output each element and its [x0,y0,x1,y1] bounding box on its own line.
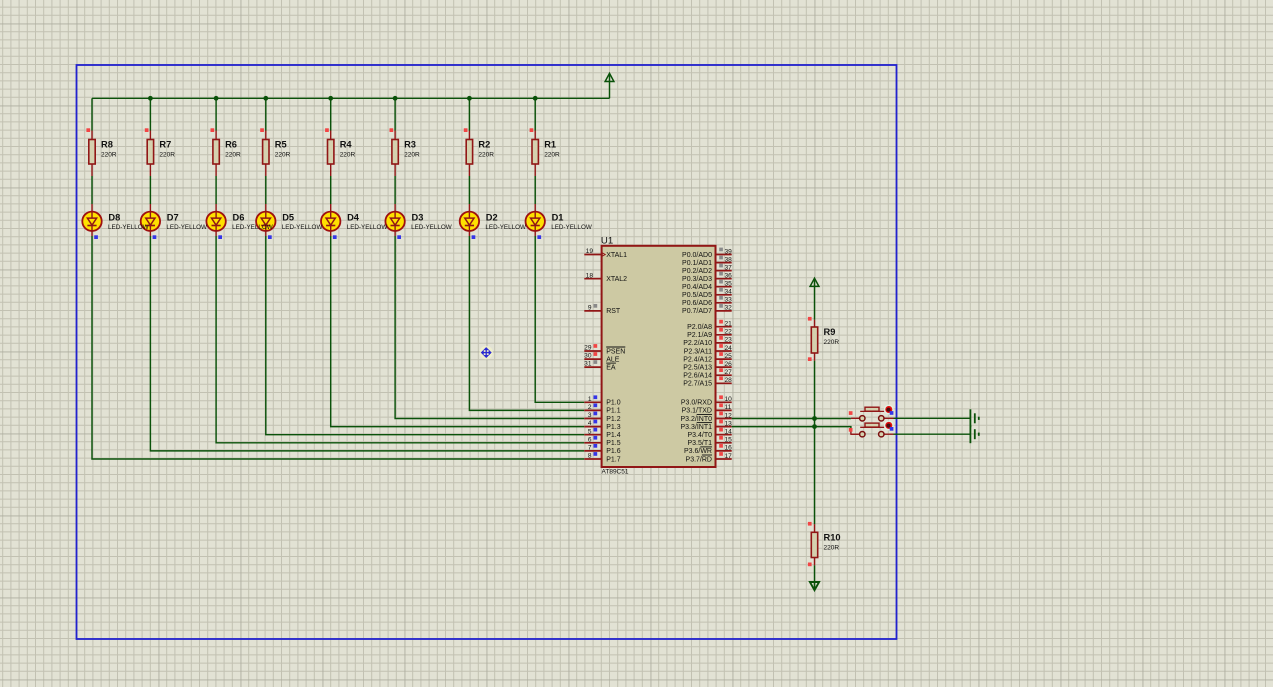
svg-text:10: 10 [725,396,733,403]
svg-text:R4: R4 [340,140,353,150]
svg-text:PSEN: PSEN [606,348,625,355]
svg-text:XTAL1: XTAL1 [606,252,627,259]
svg-text:220R: 220R [478,152,494,159]
svg-text:R6: R6 [225,140,237,150]
svg-text:4: 4 [588,420,592,427]
svg-text:D1: D1 [552,213,564,223]
svg-text:P1.0: P1.0 [606,400,621,407]
svg-text:5: 5 [588,428,592,435]
svg-text:P3.2/INT0: P3.2/INT0 [680,416,712,423]
svg-text:EA: EA [606,364,616,371]
svg-text:LED-YELLOW: LED-YELLOW [411,224,452,231]
svg-text:26: 26 [725,361,733,368]
svg-text:P0.5/AD5: P0.5/AD5 [682,292,712,299]
svg-text:R8: R8 [101,140,113,150]
svg-text:28: 28 [725,377,733,384]
svg-text:220R: 220R [159,152,175,159]
svg-text:P2.1/A9: P2.1/A9 [687,332,712,339]
svg-text:P2.6/A14: P2.6/A14 [683,373,712,380]
svg-text:35: 35 [725,281,733,288]
svg-text:P0.3/AD3: P0.3/AD3 [682,276,712,283]
svg-text:36: 36 [725,273,733,280]
svg-text:LED-YELLOW: LED-YELLOW [485,224,526,231]
svg-text:ALE: ALE [606,356,620,363]
svg-text:P3.7/RD: P3.7/RD [686,456,712,463]
svg-text:29: 29 [584,345,592,352]
svg-text:D8: D8 [108,213,120,223]
svg-text:P3.1/TXD: P3.1/TXD [682,408,712,415]
svg-text:34: 34 [725,289,733,296]
svg-text:P2.3/A11: P2.3/A11 [684,348,712,355]
svg-text:P2.7/A15: P2.7/A15 [683,381,712,388]
svg-text:2: 2 [588,404,592,411]
svg-text:19: 19 [586,248,594,255]
svg-text:37: 37 [725,264,733,271]
svg-text:21: 21 [725,321,733,328]
svg-text:P3.6/WR: P3.6/WR [684,448,712,455]
svg-text:P0.7/AD7: P0.7/AD7 [682,308,712,315]
svg-text:P3.0/RXD: P3.0/RXD [681,400,712,407]
svg-text:D4: D4 [347,213,360,223]
svg-text:R1: R1 [544,140,556,150]
svg-text:25: 25 [725,353,733,360]
svg-text:R9: R9 [824,327,836,337]
svg-text:D5: D5 [282,213,294,223]
svg-text:D7: D7 [167,213,179,223]
svg-text:R2: R2 [478,140,490,150]
svg-text:6: 6 [588,436,592,443]
svg-text:16: 16 [725,445,733,452]
svg-text:220R: 220R [275,152,291,159]
svg-text:P1.1: P1.1 [606,408,621,415]
svg-text:LED-YELLOW: LED-YELLOW [108,224,149,231]
svg-text:P2.2/A10: P2.2/A10 [683,340,712,347]
svg-text:P3.5/T1: P3.5/T1 [687,440,712,447]
svg-text:R5: R5 [275,140,287,150]
svg-text:AT89C51: AT89C51 [602,469,629,476]
svg-text:39: 39 [725,248,733,255]
svg-text:38: 38 [725,256,733,263]
svg-text:P0.2/AD2: P0.2/AD2 [682,268,712,275]
svg-text:P0.4/AD4: P0.4/AD4 [682,284,712,291]
svg-text:P2.5/A13: P2.5/A13 [683,364,712,371]
svg-text:P0.1/AD1: P0.1/AD1 [682,260,712,267]
svg-text:P0.0/AD0: P0.0/AD0 [682,252,712,259]
svg-text:18: 18 [586,272,594,279]
svg-text:220R: 220R [225,152,241,159]
svg-text:P2.0/A8: P2.0/A8 [687,324,712,331]
svg-text:9: 9 [588,305,592,312]
svg-text:220R: 220R [824,339,840,346]
svg-text:33: 33 [725,297,733,304]
svg-text:D6: D6 [233,213,245,223]
svg-text:11: 11 [725,404,732,411]
svg-text:RST: RST [606,308,621,315]
svg-text:15: 15 [725,437,733,444]
svg-text:30: 30 [584,353,592,360]
svg-text:P2.4/A12: P2.4/A12 [683,356,712,363]
svg-text:LED-YELLOW: LED-YELLOW [551,224,592,231]
svg-text:R10: R10 [824,532,841,542]
svg-text:LED-YELLOW: LED-YELLOW [232,224,273,231]
svg-text:14: 14 [725,429,733,436]
svg-text:P3.4/T0: P3.4/T0 [687,432,712,439]
svg-text:P1.6: P1.6 [606,448,621,455]
svg-text:8: 8 [588,453,592,460]
svg-text:P1.4: P1.4 [606,432,621,439]
svg-text:12: 12 [725,412,733,419]
svg-text:220R: 220R [404,152,420,159]
svg-text:R3: R3 [404,140,416,150]
svg-text:22: 22 [725,329,733,336]
svg-text:32: 32 [725,305,733,312]
svg-text:3: 3 [588,412,592,419]
svg-text:31: 31 [584,361,592,368]
svg-text:U1: U1 [601,235,613,246]
svg-text:P1.7: P1.7 [606,456,621,463]
svg-text:P1.3: P1.3 [606,424,621,431]
svg-text:13: 13 [725,420,733,427]
svg-text:P3.3/INT1: P3.3/INT1 [680,424,712,431]
svg-text:XTAL2: XTAL2 [606,276,627,283]
svg-text:220R: 220R [544,152,560,159]
svg-text:LED-YELLOW: LED-YELLOW [347,224,388,231]
svg-text:R7: R7 [159,140,171,150]
svg-text:23: 23 [725,337,733,344]
svg-text:D3: D3 [412,213,424,223]
svg-text:P1.2: P1.2 [606,416,621,423]
svg-text:220R: 220R [101,152,117,159]
svg-text:7: 7 [588,445,592,452]
svg-text:1: 1 [588,396,592,403]
svg-text:27: 27 [725,369,733,376]
svg-text:17: 17 [725,453,733,460]
svg-text:LED-YELLOW: LED-YELLOW [166,224,207,231]
svg-text:LED-YELLOW: LED-YELLOW [282,224,323,231]
svg-text:D2: D2 [486,213,498,223]
svg-text:24: 24 [725,345,733,352]
svg-text:P1.5: P1.5 [606,440,621,447]
svg-text:220R: 220R [340,152,356,159]
svg-text:220R: 220R [824,544,840,551]
svg-text:P0.6/AD6: P0.6/AD6 [682,300,712,307]
